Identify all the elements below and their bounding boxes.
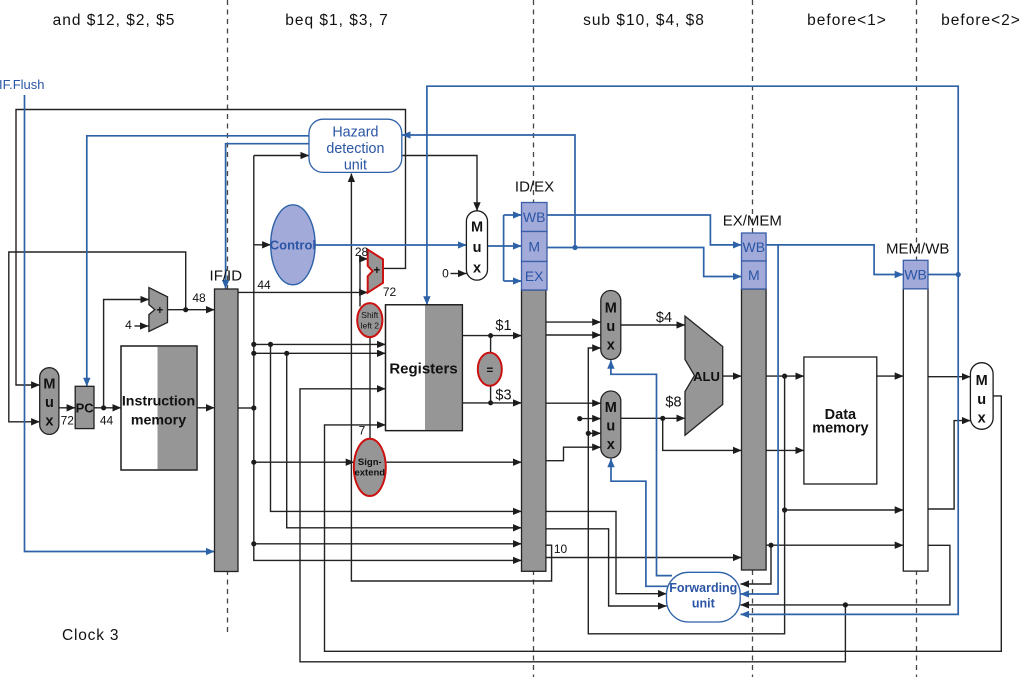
wire control mux output bracket (blue) to ID/EX WB M EX <box>488 245 504 247</box>
svg-text:sub $10, $4, $8: sub $10, $4, $8 <box>583 12 705 29</box>
forwarding unit box <box>667 572 741 622</box>
wire read register 2 to Registers <box>254 352 386 354</box>
wire control M (blue) <box>504 245 522 247</box>
PC register <box>75 386 94 428</box>
wire instruction field to ID/EX (rs lower) <box>254 543 522 545</box>
svg-text:extend: extend <box>354 467 385 478</box>
svg-text:Clock 3: Clock 3 <box>62 627 119 644</box>
EX/MEM WB box <box>742 233 767 261</box>
svg-text:Sign-: Sign- <box>358 457 382 468</box>
EX/MEM M box <box>742 261 767 289</box>
svg-text:WB: WB <box>523 209 546 225</box>
wire constant 4 to adder input 2 <box>135 325 149 327</box>
svg-text:7: 7 <box>359 424 366 438</box>
svg-text:M: M <box>605 400 617 416</box>
branch target adder (red) <box>368 250 383 293</box>
wire IF/ID PC+4 out to branch adder input 2 (44 / 72) <box>238 291 368 293</box>
wire IF/ID instruction output to node A <box>238 407 254 409</box>
wire EX/MEM.RegisterRd down to forwarding unit <box>741 545 772 584</box>
wire ID/EX.RegisterRd to EX/MEM <box>546 557 742 559</box>
wire instruction bus to hazard detection unit input <box>254 155 309 157</box>
wire data memory read data to MEM/WB <box>877 375 904 377</box>
wire EX/MEM ALU result to data memory address <box>766 375 804 377</box>
svg-text:44: 44 <box>257 278 271 292</box>
svg-text:=: = <box>486 365 493 377</box>
svg-text:ID/EX: ID/EX <box>515 179 554 196</box>
wire IF.Flush (blue) down to IF/ID flush input <box>25 95 215 552</box>
svg-text:detection: detection <box>326 141 384 157</box>
svg-text:28: 28 <box>355 245 369 259</box>
wire instruction memory output to IF/ID <box>197 407 215 409</box>
wire MEM/WB RegWrite (blue) down to forwarding unit <box>741 275 959 615</box>
wire mux A output to ALU ($4) <box>621 324 685 326</box>
wire Registers read data 2 to ID/EX ($3) <box>462 402 521 404</box>
svg-text:x: x <box>473 261 481 277</box>
pipeline register EX/MEM bar <box>742 289 767 570</box>
svg-text:before<1>: before<1> <box>807 12 887 29</box>
stage boundary dashed line 2 (ID/EX) <box>533 0 535 677</box>
svg-text:u: u <box>977 392 986 408</box>
wire ID/EX to forward mux A input 2 <box>546 334 601 336</box>
wire ID/EX WB bundle (blue) to EX/MEM WB <box>547 215 742 245</box>
svg-text:M: M <box>43 377 55 393</box>
write-back mux (white) <box>970 363 993 430</box>
wire MEM/WB read data to write-back mux input 1 <box>928 376 970 378</box>
wire branch-target: branch adder output to PC mux input 1 <box>16 110 406 386</box>
svg-text:48: 48 <box>192 291 206 305</box>
pipeline register ID/EX bar <box>522 290 546 571</box>
ID/EX M box <box>522 232 548 262</box>
svg-text:and $12, $2, $5: and $12, $2, $5 <box>53 12 176 29</box>
equality comparator oval (red) <box>478 353 502 386</box>
wire tap to equality comparator bottom <box>490 386 492 403</box>
wire MEM/WB.RegisterRd around to forwarding unit <box>741 545 950 605</box>
MEM/WB WB box <box>903 260 928 289</box>
wire control WB (blue) <box>504 214 522 216</box>
wire ID/EX read data 1 to forward mux A input 1 <box>546 321 601 323</box>
pipeline register MEM/WB bar (empty) <box>903 289 928 571</box>
wire sign-extend output up to shift-left-2 <box>369 337 371 439</box>
svg-text:M: M <box>748 267 760 283</box>
svg-text:memory: memory <box>812 421 868 437</box>
wire Registers read data 1 to ID/EX ($1) <box>462 335 521 337</box>
svg-text:4: 4 <box>125 318 132 332</box>
ALU <box>685 316 723 435</box>
svg-text:0: 0 <box>442 267 449 281</box>
wire control EX (blue) <box>504 280 522 282</box>
svg-text:u: u <box>606 418 615 434</box>
wire MEM/WB ALU result to write-back mux input 2 <box>928 421 970 509</box>
svg-text:+: + <box>156 305 163 317</box>
svg-text:x: x <box>45 413 53 429</box>
wire EX/MEM.RegisterRd to MEM/WB <box>766 544 903 546</box>
svg-text:M: M <box>528 239 540 255</box>
wire hazard unit output to control mux select <box>402 156 477 211</box>
svg-text:EX/MEM: EX/MEM <box>723 213 782 230</box>
svg-text:PC: PC <box>76 401 95 416</box>
svg-text:Registers: Registers <box>389 361 457 378</box>
svg-text:u: u <box>606 319 615 335</box>
wire write-back mux output to Registers write data <box>325 396 1002 651</box>
svg-text:EX: EX <box>525 268 544 284</box>
wire store data down to EX/MEM <box>663 418 742 450</box>
wire ID/EX read data 2 to forward mux B input 1 <box>546 402 601 404</box>
stage boundary dashed line 4 (MEM/WB) <box>916 0 918 677</box>
junction dot blue (RegWrite) <box>956 272 961 277</box>
svg-text:u: u <box>45 395 54 411</box>
wire constant 0 into control mux <box>451 273 467 275</box>
ALU source mux A (gray) <box>601 291 621 360</box>
stage boundary dashed line 3 (EX/MEM) <box>752 0 754 677</box>
svg-text:x: x <box>607 337 615 353</box>
svg-text:u: u <box>473 240 482 256</box>
svg-text:left 2: left 2 <box>361 321 380 331</box>
svg-text:before<2>: before<2> <box>941 12 1021 29</box>
wire EX/MEM ALU result forwarding chain to mux A input 3 <box>588 348 784 634</box>
wire instruction opcode to Control <box>254 244 271 246</box>
wire node A vertical: instruction bus up to hazard level and down to ID/EX <box>254 156 522 561</box>
wire rs field down to ID/EX <box>271 344 522 511</box>
wire hazard PCWrite (blue) to PC <box>87 136 309 386</box>
svg-text:Control: Control <box>270 237 316 252</box>
svg-text:x: x <box>978 411 986 427</box>
wire ID/EX.RegisterRt to forwarding unit <box>546 529 667 606</box>
svg-text:Hazard: Hazard <box>332 125 378 141</box>
svg-text:$3: $3 <box>495 388 511 404</box>
svg-text:unit: unit <box>344 158 367 174</box>
wire forward stub to mux B input 2 <box>580 418 601 420</box>
wire ID/EX immediate to mux B input 4 <box>546 447 601 461</box>
svg-text:10: 10 <box>554 542 568 556</box>
svg-text:$4: $4 <box>656 310 672 326</box>
svg-text:72: 72 <box>383 285 397 299</box>
instruction memory box <box>121 346 197 470</box>
svg-text:memory: memory <box>131 413 186 429</box>
svg-text:unit: unit <box>692 597 716 611</box>
wire mux B output to ALU ($8) <box>621 417 685 419</box>
wire tap to equality comparator top <box>490 336 492 354</box>
wire read register 1 to Registers <box>254 343 386 345</box>
Registers box <box>386 305 463 431</box>
wire sign-extend output to ID/EX <box>387 461 522 463</box>
wire MEM/WB RegWrite (blue) up over to Registers write enable <box>427 86 958 305</box>
wire ID/EX M bundle (blue) to EX/MEM M <box>547 248 742 277</box>
junction dot blue (MemRead tap) <box>572 245 577 250</box>
wire ID/EX.MemRead (blue) up to hazard detection unit <box>402 135 575 248</box>
shift left 2 oval (red) <box>357 303 382 337</box>
svg-text:IF/ID: IF/ID <box>210 268 243 285</box>
svg-text:44: 44 <box>100 414 114 428</box>
wire ID/EX.RegisterRt (10) down around to hazard detection unit <box>351 174 551 582</box>
wire hazard IF/IDWrite (blue) to IF/ID top <box>226 144 309 289</box>
Control oval <box>271 205 315 285</box>
hazard detection unit box <box>309 119 402 172</box>
wire PC output to instruction memory (44) <box>94 407 121 409</box>
wire write register number bus back to Registers <box>300 389 845 662</box>
wire EX/MEM store data to data memory write data <box>766 449 804 451</box>
svg-text:WB: WB <box>904 267 927 283</box>
wire EX/MEM WB bundle (blue) to MEM/WB WB <box>766 245 903 275</box>
svg-text:Instruction: Instruction <box>122 394 195 410</box>
wire immediate field to sign-extend (7) <box>254 461 354 463</box>
stage boundary dashed line 1 (IF/ID) <box>227 0 229 636</box>
ALU source mux B (gray) <box>601 391 621 458</box>
svg-text:x: x <box>607 437 615 453</box>
sign-extend oval (red) <box>354 439 386 496</box>
wire rt field down to ID/EX <box>287 353 522 528</box>
control-signal mux (white) <box>466 211 487 280</box>
wire PC mux output to PC (72) <box>59 407 75 409</box>
wire ALU result pass to MEM/WB <box>785 509 904 511</box>
ID/EX WB box <box>522 203 548 232</box>
wire shift-left-2 output up to branch adder input 1 (28) <box>360 259 368 307</box>
svg-text:MEM/WB: MEM/WB <box>886 241 949 258</box>
ID/EX EX box <box>522 262 548 291</box>
svg-text:beq $1, $3, 7: beq $1, $3, 7 <box>285 12 389 29</box>
wire forwarding unit ForwardA (blue) to mux A select <box>611 360 672 575</box>
svg-text:Forwarding: Forwarding <box>669 581 737 595</box>
svg-text:M: M <box>976 373 988 389</box>
PC+4 adder <box>149 288 168 332</box>
wire forward tap to mux B input 3 <box>588 432 601 434</box>
pipeline register IF/ID <box>215 289 239 572</box>
wire PC+4 adder output to IF/ID (48) <box>168 309 215 311</box>
svg-text:M: M <box>471 220 483 236</box>
svg-text:$8: $8 <box>665 395 681 411</box>
svg-text:IF.Flush: IF.Flush <box>0 77 45 92</box>
wire PC+4 feedback: adder output up over to PC mux input 2 <box>9 252 186 422</box>
wire Control outputs (blue) to control mux <box>315 244 466 246</box>
svg-text:Shift: Shift <box>361 310 379 320</box>
PC source mux (gray) <box>40 368 59 435</box>
data memory box <box>804 357 877 484</box>
svg-text:M: M <box>605 301 617 317</box>
svg-text:72: 72 <box>61 414 75 428</box>
wire forwarding unit ForwardB (blue) to mux B select <box>611 459 668 587</box>
instruction memory gray half <box>158 347 197 470</box>
Registers gray half <box>425 306 462 430</box>
wire ID/EX.RegisterRs to forwarding unit <box>546 511 667 593</box>
svg-text:+: + <box>373 265 380 277</box>
svg-text:WB: WB <box>743 239 766 255</box>
svg-text:ALU: ALU <box>693 369 720 384</box>
wire PC output up to PC+4 adder input 1 <box>104 300 149 408</box>
wire EX/MEM RegWrite (blue) down to forwarding unit <box>741 245 779 594</box>
wire ALU result to EX/MEM <box>723 375 742 377</box>
svg-text:$1: $1 <box>495 318 511 334</box>
